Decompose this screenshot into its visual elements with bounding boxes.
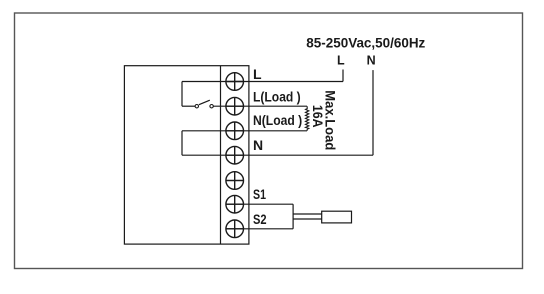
svg-text:N: N [367,54,376,68]
svg-text:S1: S1 [253,186,266,202]
wire relay vertical [181,82,183,107]
wire sensor cable top [293,213,322,215]
wire sensor vertical [292,204,294,229]
terminal 3 N(Load) [226,122,244,140]
terminal 7 S2 [226,220,244,238]
relay contact left [195,105,198,108]
terminal 6 S1 [226,195,244,213]
sensor probe [322,211,352,223]
wire S1 row [226,203,293,205]
load resistor zigzag [306,106,309,131]
wire N row [182,154,373,156]
svg-text:S2: S2 [253,211,267,227]
relay blade [199,100,210,105]
relay contact right [210,105,213,108]
svg-text:L: L [253,66,262,82]
svg-text:L(Load ): L(Load ) [253,89,301,104]
wire N drop from label [372,70,374,155]
terminal 5 unused [226,172,244,190]
wire N(Load) row [182,130,307,132]
wire relay stub [182,105,195,107]
thermostat body box [124,66,248,244]
terminal 1 L [226,73,244,91]
wire bridge vertical [181,131,183,155]
wire L drop from label [342,70,344,82]
wire L(Load) row [213,105,307,107]
svg-text:N(Load ): N(Load ) [253,113,302,128]
svg-text:L: L [337,54,345,68]
wire sensor cable bottom [293,218,322,220]
svg-text:85-250Vac,50/60Hz: 85-250Vac,50/60Hz [306,35,425,50]
terminal 2 L(Load) [226,97,244,115]
wire L row [182,81,343,83]
wire S2 row [226,228,293,230]
svg-text:N: N [253,137,263,153]
terminal 4 N [226,146,244,164]
terminal strip divider [220,66,222,244]
svg-text:16A: 16A [310,105,325,128]
